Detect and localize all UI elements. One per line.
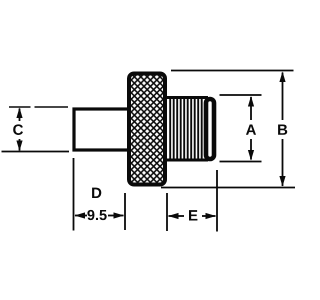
label D (92, 188, 101, 198)
A up arrow (248, 96, 254, 107)
A bottom tick (220, 161, 262, 163)
label B (278, 124, 287, 134)
dimension B (161, 71, 295, 188)
B dimension line (282, 73, 284, 121)
shaft (plain cylinder, dim C x D) (74, 109, 132, 150)
D dimension line right segment (108, 215, 124, 217)
C down arrow (16, 141, 22, 152)
E left arrow (168, 213, 179, 219)
C dimension line (19, 109, 21, 122)
E dimension line left segment (169, 215, 185, 217)
D right extension line (124, 193, 126, 230)
stem top edge (165, 96, 208, 99)
A dimension line (250, 97, 252, 120)
E left extension line (166, 193, 168, 231)
E right arrow (206, 213, 217, 219)
knurled head (dim B) (129, 74, 165, 185)
E right extension line (216, 170, 218, 232)
D right arrow (114, 212, 125, 218)
thread lines (170, 99, 202, 159)
B bottom extension line (161, 187, 295, 189)
D left arrow (75, 212, 86, 218)
B top extension line (171, 70, 294, 72)
label E (189, 210, 197, 220)
A top tick (220, 94, 262, 96)
C up arrow (16, 108, 22, 119)
label C (13, 124, 23, 135)
wire: C top extension dashed line (9, 106, 68, 108)
label A (246, 124, 256, 134)
value 9.5 (87, 210, 106, 220)
stem bottom edge (165, 159, 208, 162)
dimension D (74, 158, 126, 231)
stem end cap (206, 99, 214, 159)
dimension E (167, 170, 217, 232)
threaded stem (dim A x E) (165, 98, 214, 161)
B down arrow (279, 176, 285, 187)
wire: C bottom extension solid line (2, 151, 70, 153)
dimension C (13, 108, 23, 152)
A down arrow (248, 150, 254, 161)
E dimension line right segment (202, 215, 216, 217)
D left extension line (73, 158, 75, 231)
D dimension line left segment (75, 215, 87, 217)
B up arrow (279, 72, 285, 83)
dimension A (220, 95, 262, 162)
